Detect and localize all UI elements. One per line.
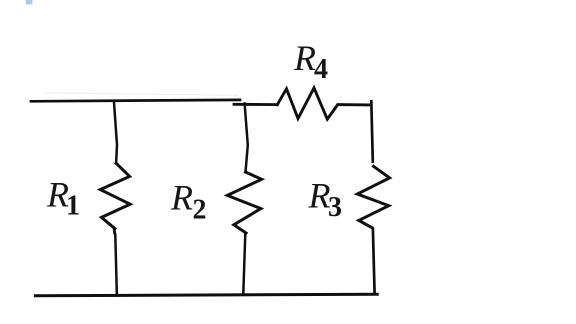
svg-text:4: 4 — [314, 54, 328, 85]
svg-text:2: 2 — [193, 195, 207, 226]
svg-text:R: R — [293, 38, 316, 78]
svg-text:3: 3 — [328, 192, 342, 223]
svg-text:R: R — [170, 178, 193, 218]
svg-text:1: 1 — [66, 191, 80, 222]
